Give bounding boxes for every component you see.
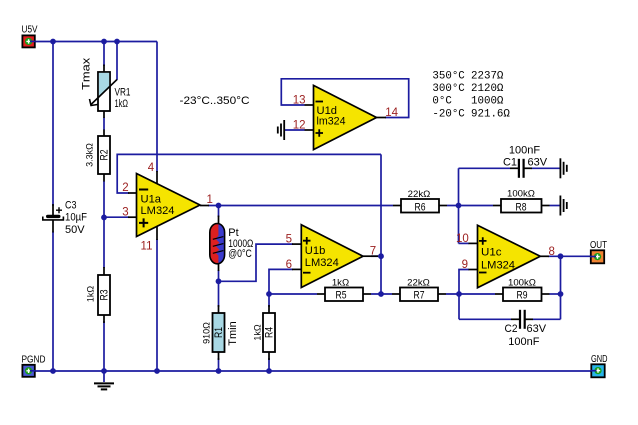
wire U1a pin3 from node — [104, 216, 129, 218]
pin stub C2 left — [511, 318, 519, 320]
node top rail / VR1 — [101, 39, 107, 45]
op-amp U1a — [137, 174, 201, 237]
terminal PGND — [22, 355, 46, 377]
svg-text:12: 12 — [293, 120, 306, 132]
svg-text:7: 7 — [370, 246, 376, 258]
svg-text:R7: R7 — [414, 290, 425, 302]
wire into GND terminal — [591, 370, 597, 372]
svg-text:14: 14 — [385, 107, 398, 119]
node U1c out — [558, 253, 564, 259]
wire U1c output to OUT — [548, 255, 591, 257]
pin stub U1d pin12 — [305, 129, 314, 131]
wire node to R5 — [269, 293, 317, 295]
svg-text:2: 2 — [122, 182, 128, 194]
svg-text:Tmin: Tmin — [227, 321, 239, 345]
svg-text:LM324: LM324 — [305, 257, 339, 269]
svg-text:22kΩ: 22kΩ — [407, 277, 430, 288]
svg-text:GND: GND — [591, 354, 608, 365]
wire VR1 wiper vertical — [116, 42, 118, 81]
node rail x104 — [101, 368, 107, 374]
wire C2 left lead row — [459, 318, 511, 320]
pin stub R6 right — [439, 205, 447, 207]
svg-text:63V: 63V — [528, 157, 548, 169]
svg-text:R4: R4 — [264, 327, 276, 338]
node rail x157 — [154, 368, 160, 374]
svg-text:1kΩ: 1kΩ — [332, 277, 349, 288]
svg-text:C2: C2 — [505, 323, 518, 335]
wire C1 row — [459, 167, 511, 169]
svg-text:lm324: lm324 — [317, 116, 346, 128]
svg-text:@0°C: @0°C — [228, 248, 252, 260]
wire top +5V rail — [35, 41, 157, 43]
pin stub U1d pin13 — [305, 104, 314, 106]
pin stub R8 right — [542, 205, 550, 207]
node U1a out / Pt — [216, 203, 222, 209]
svg-text:R2: R2 — [99, 150, 111, 161]
svg-text:OUT: OUT — [590, 240, 607, 251]
wire pin10 node vertical C1 to U1c — [458, 168, 460, 243]
pin stub R1 top — [218, 305, 220, 313]
svg-text:63V: 63V — [527, 323, 547, 335]
wire R9 right — [550, 293, 561, 295]
resistor R1 — [201, 313, 239, 352]
svg-text:22kΩ: 22kΩ — [408, 189, 431, 200]
svg-text:100nF: 100nF — [509, 144, 540, 156]
terminal OUT — [590, 240, 607, 263]
svg-text:VR1: VR1 — [115, 86, 131, 98]
wire U1a output row to R6 and R8 — [208, 205, 393, 207]
svg-text:U1c: U1c — [481, 247, 502, 259]
wire VR1-R2-R3 column — [103, 118, 105, 131]
trimmer VR1 — [80, 57, 130, 111]
wire into U5V terminal — [30, 40, 36, 42]
svg-text:3.3kΩ: 3.3kΩ — [85, 143, 95, 167]
wire U1a pin4 to +5V rail — [156, 42, 158, 173]
node rail x268.5 — [266, 368, 272, 374]
node top rail / left vertical — [50, 39, 56, 45]
svg-text:C1: C1 — [503, 157, 517, 169]
pin stub U1a pin11 — [156, 226, 158, 240]
svg-text:LM324: LM324 — [141, 205, 175, 217]
resistor R9 — [503, 277, 542, 301]
node R6 / C1 / R8 / pin10 — [456, 203, 462, 209]
pin stub R9 left — [495, 293, 503, 295]
pin stub R7 right — [438, 293, 446, 295]
ground symbol below rail — [94, 371, 114, 389]
svg-text:-20°C921.6Ω: -20°C921.6Ω — [432, 108, 510, 120]
pin stub U1c pin10 — [469, 242, 478, 244]
svg-text:R8: R8 — [516, 201, 527, 213]
resistor R3 — [86, 275, 111, 315]
pin stub U1b pin6 — [292, 268, 301, 270]
pin stub C2 right — [525, 318, 533, 320]
wire Pt bottom to node — [218, 270, 220, 281]
pin stub U1a pin2 — [128, 192, 137, 194]
svg-text:PGND: PGND — [22, 355, 46, 366]
pin stub R3 bottom — [103, 315, 105, 323]
svg-text:4: 4 — [148, 162, 155, 174]
pin stub Pt top — [218, 216, 220, 225]
wire U1b output — [371, 255, 381, 257]
wire pin10 — [459, 242, 470, 244]
capacitor C3 — [43, 200, 87, 237]
ground symbol at C1 — [560, 158, 566, 178]
pin stub U1a pin3 — [128, 216, 137, 218]
svg-text:LM324: LM324 — [481, 260, 515, 272]
node R2/R3/pin3 — [101, 215, 107, 221]
node Pt bottom — [216, 278, 222, 284]
svg-text:5: 5 — [286, 234, 292, 246]
ground symbol at R8 — [560, 196, 566, 216]
pin stub R2 bottom — [103, 174, 105, 182]
node rail x218.5 — [216, 368, 222, 374]
wire into PGND terminal — [30, 370, 36, 372]
wire U1d pin12 to ground — [285, 129, 305, 131]
wire into OUT terminal — [590, 256, 596, 258]
capacitor C2 — [505, 310, 547, 348]
svg-text:R5: R5 — [336, 290, 347, 302]
BLACK PIN STUBS — [104, 65, 550, 361]
svg-text:910Ω: 910Ω — [201, 322, 211, 344]
pin stub R4 bottom — [268, 352, 270, 360]
pin stub Pt bottom — [218, 263, 220, 271]
resistor R4 — [252, 313, 275, 352]
wire U1c pin9 down to node — [459, 270, 469, 295]
svg-text:U5V: U5V — [22, 24, 38, 35]
pin stub R6 left — [393, 205, 401, 207]
node R9 right — [558, 291, 564, 297]
resistor R7 — [400, 277, 438, 301]
wire R7 to pin9 node — [446, 293, 495, 295]
pin stub C1 right — [524, 167, 532, 169]
wire Pt node to U1b pin5 — [219, 244, 294, 281]
svg-text:Tmax: Tmax — [80, 57, 92, 90]
wire U1d feedback loop — [281, 79, 408, 118]
terminal U5V — [22, 24, 38, 47]
svg-text:13: 13 — [293, 95, 306, 107]
op-amp U1d — [314, 85, 377, 149]
svg-text:100kΩ: 100kΩ — [507, 189, 535, 200]
svg-text:C3: C3 — [65, 200, 77, 212]
svg-text:R3: R3 — [99, 290, 111, 301]
terminal GND — [591, 354, 608, 377]
svg-text:1kΩ: 1kΩ — [86, 286, 96, 303]
wire C2 right to vertical — [533, 318, 561, 320]
pin stub VR1-R2 — [103, 111, 105, 118]
op-amp U1c — [478, 225, 541, 288]
resistor R8 — [501, 189, 542, 214]
wire output vertical x560 — [560, 256, 562, 319]
pin stub R9 right — [542, 293, 550, 295]
wire ground rail bottom — [35, 370, 592, 372]
wire U1b pin6 to node — [269, 269, 293, 294]
node pin6 / R5 / R4 — [266, 291, 272, 297]
resistor R2 — [85, 136, 111, 174]
pin stub U1c out — [540, 255, 549, 257]
pin stub R8 left — [493, 205, 501, 207]
wire node to R4 — [268, 294, 270, 307]
pin stub VR1 top — [103, 65, 105, 73]
svg-text:1kΩ: 1kΩ — [115, 98, 129, 110]
pin stub U1a pin4 — [156, 171, 158, 185]
pin stub U1b pin5 — [292, 243, 301, 245]
wire Pt top — [218, 206, 220, 218]
wire node to R1 — [218, 281, 220, 307]
node top rail / wiper — [114, 39, 120, 45]
svg-text:6: 6 — [286, 259, 292, 271]
svg-text:8: 8 — [549, 246, 555, 258]
pin stub R5 left — [317, 293, 325, 295]
wire left vertical U5V to ground rail — [52, 42, 54, 207]
node U1b out — [378, 253, 384, 259]
svg-text:R9: R9 — [517, 290, 528, 302]
wire U1a pin2 to feedback — [117, 154, 381, 193]
wire R5 to R7 — [371, 293, 392, 295]
pin stub R1 bottom — [218, 352, 220, 360]
svg-text:-23°C..350°C: -23°C..350°C — [180, 95, 250, 107]
wire R1 bottom to rail — [218, 358, 220, 371]
wire pin9 node down to C2 row — [458, 294, 460, 319]
node R5/R7/feedback — [378, 291, 384, 297]
svg-text:U1b: U1b — [305, 245, 326, 257]
svg-text:U1a: U1a — [141, 194, 162, 206]
wire R3 bottom to ground rail — [103, 321, 105, 371]
svg-text:R1: R1 — [213, 327, 225, 338]
svg-text:10µF: 10µF — [65, 212, 87, 224]
svg-text:1: 1 — [207, 194, 213, 206]
svg-text:11: 11 — [141, 241, 153, 253]
resistor R6 — [401, 189, 439, 213]
op-amp U1b — [301, 225, 363, 288]
pin stub U1c pin9 — [469, 269, 478, 271]
resistor R5 — [325, 277, 363, 301]
ground symbol at U1d pin12 — [278, 120, 284, 140]
wire VR1 top lead — [103, 42, 105, 67]
pin stub U1b out — [363, 255, 378, 257]
capacitor C1 — [503, 144, 548, 178]
pin stub R3 top — [103, 267, 105, 275]
svg-text:1kΩ: 1kΩ — [252, 324, 262, 341]
wire R4 bottom to rail — [268, 358, 270, 371]
wire U1a pin11 to ground rail — [156, 239, 158, 371]
pin stub C1 left — [510, 167, 518, 169]
pin stub R7 left — [392, 293, 400, 295]
node pin9/R7/R9/C2 — [456, 291, 462, 297]
pin stub U1a out — [200, 205, 209, 207]
svg-text:100nF: 100nF — [508, 336, 539, 348]
svg-text:R6: R6 — [415, 201, 426, 213]
node rail x53 — [50, 368, 56, 374]
svg-text:50V: 50V — [65, 224, 85, 236]
wire feedback vertical x381 — [380, 154, 382, 294]
svg-text:10: 10 — [456, 233, 469, 245]
svg-text:3: 3 — [122, 207, 128, 219]
pin stub U1d out — [377, 117, 387, 119]
svg-text:100kΩ: 100kΩ — [508, 277, 536, 288]
pin stub R4 top — [268, 305, 270, 313]
pin stub R5 right — [363, 293, 371, 295]
svg-text:9: 9 — [462, 259, 468, 271]
